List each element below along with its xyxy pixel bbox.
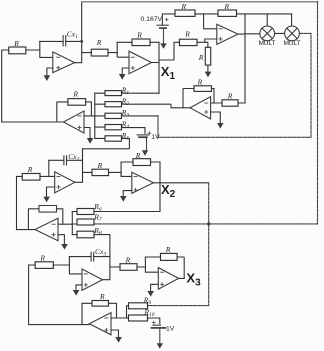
wire bus stub R4: [95, 126, 105, 128]
ground (U7): [217, 123, 223, 129]
wire column to R (to inverter U10): [110, 266, 120, 268]
svg-text:R: R: [39, 253, 45, 262]
svg-text:R: R: [135, 151, 141, 160]
svg-text:R1: R1: [121, 86, 130, 97]
wire top rail to MULT1: [266, 14, 268, 26]
wire initial-condition arrow to X1: [163, 28, 165, 43]
wire battery to ground arrow: [159, 328, 161, 343]
wire R8 to integrator U9 output column: [94, 235, 110, 280]
multiplier MULT2: [284, 26, 301, 47]
svg-text:R: R: [181, 2, 187, 11]
resistor R (0.167V input to U3): [175, 2, 195, 17]
wire bus stub R3: [95, 115, 105, 117]
svg-text:Cx2: Cx2: [68, 152, 79, 163]
wire U1 output to R (to inverter U2): [82, 52, 92, 54]
wire Cx3 to U9 output column: [94, 256, 110, 258]
ground (U8): [61, 244, 68, 250]
wire node to capacitor Cx2: [49, 159, 64, 161]
wire U11 output to bus: [29, 324, 89, 326]
ground (U2): [119, 74, 126, 80]
wire right rail down to R7 line: [317, 2, 319, 224]
wire feedback R to X1 column: [150, 41, 159, 43]
wire U4 feedback right leg: [86, 102, 92, 116]
wire U4 output to feedback bus: [2, 121, 64, 123]
wire X2 vertical to bottom: [148, 183, 209, 306]
op-amp U2 inverter X1: [129, 51, 152, 73]
junction dot X2 and R7 line: [207, 222, 210, 225]
ground (U3 bias R): [205, 72, 212, 78]
svg-text:1V: 1V: [166, 325, 175, 332]
wire U8 inverting input: [58, 223, 72, 225]
wire U3 output column: [244, 14, 246, 103]
wire vertical R to ground: [207, 65, 209, 72]
wire U3 inverting input drop: [204, 14, 217, 29]
svg-text:X1: X1: [161, 64, 176, 82]
wire R to U7 inverting input: [211, 102, 222, 104]
wire Cx1 to U1 output column: [66, 40, 82, 42]
svg-text:Cx1: Cx1: [67, 29, 78, 40]
wire R to U5 node: [40, 175, 55, 177]
wire bus stub R7: [72, 223, 77, 225]
op-amp U11 summing (left pointing): [89, 313, 111, 335]
op-amp U4 summing (left pointing): [64, 111, 85, 133]
op-amp U5 integrator 2: [55, 172, 75, 193]
wire U3 output down to U7 input resistor: [238, 102, 245, 104]
wire Cx2 to U5 output column: [67, 159, 83, 161]
arrow head (0.167V to X1): [160, 43, 166, 48]
wire R to U1 inverting node: [26, 49, 40, 51]
svg-text:R7: R7: [93, 212, 102, 223]
svg-text:R9: R9: [143, 295, 152, 306]
wire R7 line: [94, 223, 318, 225]
wire U4 non-inverting input to ground: [84, 128, 90, 139]
wire U1 non-inverting input to ground: [47, 68, 53, 75]
wire X2 node column: [159, 162, 161, 212]
op-amp U9 integrator 3: [82, 269, 103, 290]
svg-text:0.167V: 0.167V: [141, 16, 163, 23]
capacitor Cx3: [91, 247, 106, 261]
svg-text:R: R: [227, 91, 233, 100]
wire battery to ground arrow: [146, 138, 148, 151]
wire feedback bus to integrator U1 input: [2, 50, 9, 122]
wire node to U6 feedback R: [121, 161, 133, 163]
resistor R (U4 feedback): [68, 90, 86, 106]
op-amp U6 inverter X2: [132, 172, 154, 193]
resistor R (U5 to U6): [92, 161, 109, 176]
svg-text:R: R: [27, 165, 33, 174]
wire U8 feedback right leg: [57, 209, 63, 224]
ground (U9): [73, 290, 80, 296]
battery 1V (R4 bias): [137, 132, 160, 142]
resistor R (U1 to U2): [91, 38, 108, 56]
wire U11 inverting input to R9 R10: [111, 317, 129, 319]
junction dot at U1 output column: [80, 40, 83, 43]
wire R4 lead to 1V battery: [122, 128, 146, 135]
wire U11 feedback left leg: [82, 303, 92, 324]
wire node to capacitor Cx1: [40, 40, 63, 42]
wire bus stub R2: [95, 103, 105, 105]
op-amp U7 inverter (left pointing): [190, 97, 211, 119]
svg-text:R: R: [198, 53, 204, 62]
wire U9 output to column: [103, 279, 110, 281]
wire feedback R to X2 column: [151, 161, 161, 163]
wire node to U10 feedback R: [145, 256, 160, 258]
resistor R (U7 input): [222, 91, 238, 106]
capacitor Cx1: [63, 29, 78, 46]
svg-text:R: R: [96, 38, 102, 47]
resistor R (U7 feedback): [194, 77, 212, 91]
wire U5 non-inverting input to ground: [47, 187, 55, 197]
node X2 label: [161, 182, 176, 200]
ground (U10): [147, 291, 154, 297]
wire U11 non-inverting input to ground: [111, 330, 119, 337]
wire U11 feedback right leg: [109, 303, 117, 318]
ground (U6): [120, 196, 127, 202]
ground (1V battery bottom): [157, 343, 163, 349]
resistor R (U3 bias, vertical): [198, 47, 211, 65]
wire U2 output to X1 node: [152, 62, 160, 64]
resistor R (U8 feedback): [39, 206, 57, 213]
wire U4 feedback left leg: [57, 102, 68, 122]
svg-text:R10: R10: [143, 308, 154, 319]
wire feedback R right leg: [177, 257, 184, 278]
ground (1V battery): [142, 150, 148, 155]
wire bus stub R5: [95, 137, 105, 139]
wire U7 feedback right leg: [212, 89, 215, 104]
wire U6 output to X2 node: [153, 182, 160, 184]
svg-text:R: R: [136, 31, 142, 40]
wire X1 to input resistor: [159, 42, 180, 60]
wire U8 feedback left leg: [28, 209, 39, 230]
wire node to feedback resistor: [117, 41, 132, 43]
resistor R (U2 feedback): [132, 31, 150, 46]
svg-text:MULT: MULT: [259, 40, 276, 47]
ground (U4): [87, 138, 94, 144]
svg-text:R4: R4: [121, 120, 130, 131]
ground (U1): [44, 75, 51, 81]
resistor R10: [129, 308, 155, 321]
wire U5 output to R (to inverter U6): [83, 171, 93, 173]
resistor R (U10 feedback): [161, 245, 178, 261]
resistor R (integrator U1 input): [9, 39, 26, 54]
svg-text:R: R: [97, 161, 103, 170]
wire U9 input node column: [69, 257, 82, 274]
wire X2 right branch: [160, 182, 209, 184]
resistor R (integrator U9 input): [35, 253, 53, 268]
wire node to capacitor Cx3: [69, 256, 91, 258]
svg-text:R: R: [99, 292, 105, 301]
wire R1 lead from X1: [122, 92, 160, 94]
wire R to U6 input node: [109, 172, 132, 176]
resistor R7: [77, 212, 102, 225]
svg-text:R: R: [13, 39, 19, 48]
wire R to U3 node: [197, 41, 205, 43]
wire U7 output to R2: [122, 104, 191, 108]
svg-text:R: R: [125, 255, 131, 264]
wire summing bus U8: [71, 212, 73, 235]
wire between top resistors: [195, 13, 218, 15]
resistor R1: [105, 86, 129, 97]
svg-text:MULT: MULT: [284, 40, 301, 47]
wire U10 output to X3: [179, 277, 185, 279]
wire X2 to R6: [94, 211, 160, 213]
node X1 label: [161, 64, 176, 82]
wire U2 input node column: [117, 42, 129, 57]
ground (U5): [43, 197, 50, 203]
op-amp U3 summing: [217, 24, 238, 44]
wire feedback bus U11 output to integrator U9 input: [29, 265, 35, 325]
wire U8 output to bus: [17, 229, 36, 231]
resistor R5: [105, 131, 129, 142]
wire U8 non-inverting input to ground: [58, 235, 64, 244]
op-amp U1 integrator 1: [53, 52, 75, 73]
wire R10 to 1V battery: [148, 318, 160, 325]
wire U6 feedback node column: [120, 162, 122, 176]
resistor R (X1 into U3): [180, 29, 198, 45]
wire U6 non-inverting input to ground: [123, 191, 132, 196]
wire U4 inverting input: [84, 115, 95, 117]
op-amp U8 summing (left pointing): [35, 218, 58, 241]
wire top rail: [82, 1, 318, 3]
wire feedback bus U8 output to integrator U5 input: [17, 176, 23, 229]
wire R to U10 input node: [137, 266, 145, 268]
resistor R (U11 feedback): [92, 292, 109, 306]
resistor R (integrator U5 input): [22, 165, 40, 180]
svg-text:R: R: [165, 245, 171, 254]
battery 1V (R10 bias): [152, 321, 175, 332]
wire MULT1 to MULT2: [275, 32, 285, 34]
svg-text:R3: R3: [121, 108, 130, 119]
wire summing bus U4: [94, 93, 96, 138]
op-amp U10 inverter X3: [158, 268, 178, 290]
wire U7 non-inverting input to ground: [211, 112, 221, 123]
wire top rail to MULT2: [291, 14, 293, 26]
battery 0.167V: [141, 14, 176, 28]
resistor R3: [105, 108, 129, 119]
wire bus stub R1: [95, 92, 105, 94]
svg-text:R2: R2: [121, 97, 130, 108]
node X3 label: [186, 270, 201, 288]
wire U1 input node column: [40, 41, 53, 57]
wire U2 non-inverting input to ground: [122, 68, 129, 74]
svg-text:X2: X2: [161, 182, 176, 200]
wire U7 feedback left leg: [183, 89, 194, 108]
svg-text:R: R: [72, 90, 78, 99]
resistor R2: [105, 97, 129, 108]
wire R9 bus riser: [127, 306, 129, 318]
wire U1 output to column: [75, 62, 82, 64]
svg-text:R6: R6: [93, 202, 102, 213]
svg-text:R: R: [184, 29, 190, 38]
resistor R (U6 feedback): [133, 151, 151, 166]
wire U5 input node column: [48, 160, 50, 176]
wire R to U9 node: [53, 264, 69, 266]
wire U10 non-inverting input to ground: [151, 284, 159, 291]
wire U3 non-inverting input node: [205, 39, 217, 47]
wire R3 lead: [122, 115, 159, 117]
wire U1 output column / top rail riser: [81, 2, 83, 63]
wire U3 output to multiplier: [238, 33, 260, 35]
svg-text:1V: 1V: [151, 134, 160, 141]
wire X1 node column: [158, 42, 160, 93]
resistor R9: [129, 295, 152, 308]
capacitor Cx2: [64, 152, 80, 165]
wire bus stub R6: [72, 211, 77, 213]
wire R to U2 input node: [108, 52, 117, 54]
wire R5 lead to integrator U5 output: [83, 138, 130, 160]
wire top rail to multiplier tops: [237, 13, 292, 15]
wire U10 input node column: [145, 257, 158, 272]
svg-text:X3: X3: [186, 270, 201, 288]
resistor R8: [77, 226, 102, 238]
svg-text:R: R: [224, 2, 230, 11]
multiplier MULT1: [259, 26, 276, 47]
resistor R4: [105, 120, 129, 131]
resistor R (U9 to U10): [120, 255, 137, 270]
wire MULT2 output loop to R3: [158, 33, 311, 137]
svg-text:R: R: [197, 77, 203, 86]
resistor R (U3 feedback): [218, 2, 237, 17]
resistor R6: [77, 202, 102, 215]
svg-text:R5: R5: [121, 131, 130, 142]
wire U9 non-inverting input to ground: [76, 285, 82, 290]
wire U5 output column: [75, 149, 83, 183]
wire bus stub R8: [72, 234, 77, 236]
ground (U11): [115, 337, 122, 343]
